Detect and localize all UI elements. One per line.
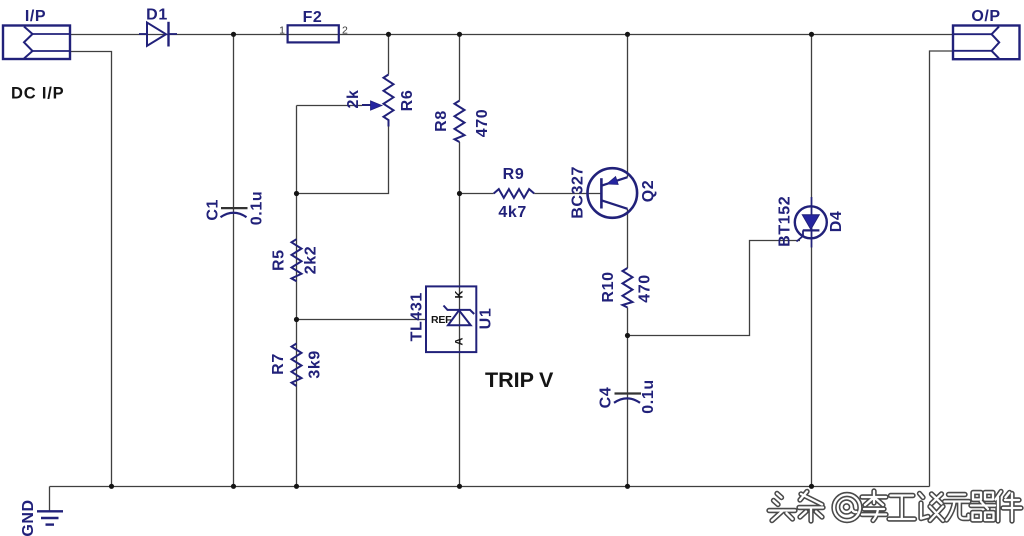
wire bottom rail [50, 486, 930, 488]
wire O/P pin2 down [930, 51, 954, 487]
wire R10 junction to D4 gate [628, 241, 801, 336]
svg-text:0.1u: 0.1u [248, 191, 265, 225]
resistor R7 [292, 344, 302, 387]
Q2 emitter arrow [607, 177, 618, 185]
svg-text:3k9: 3k9 [306, 350, 323, 379]
svg-text:1: 1 [279, 25, 285, 37]
svg-text:Q2: Q2 [640, 180, 657, 203]
svg-text:R9: R9 [503, 166, 525, 183]
shunt regulator U1 TL431 [426, 286, 476, 352]
svg-text:K: K [454, 290, 466, 298]
wire R8 top [459, 35, 461, 101]
wire I/P pin2 to down [70, 52, 112, 487]
svg-text:470: 470 [474, 109, 491, 138]
svg-text:O/P: O/P [971, 8, 1000, 25]
svg-text:TRIPV: TRIPV [485, 368, 554, 392]
svg-text:470: 470 [636, 274, 653, 303]
svg-text:F2: F2 [303, 9, 323, 26]
svg-text:R10: R10 [600, 271, 617, 302]
wire D4 branch vertical [811, 35, 813, 487]
svg-text:0.1u: 0.1u [640, 379, 657, 413]
wire pot bottom [297, 127, 389, 194]
resistor R8 [455, 101, 465, 142]
wire Q2 collector down to R10 [627, 209, 629, 268]
svg-text:D4: D4 [828, 211, 845, 233]
wire Q2 emitter up [627, 35, 629, 178]
svg-text:TL431: TL431 [409, 292, 426, 341]
resistor R5 [292, 239, 302, 281]
wire R8 bottom to TL431 to rail [459, 142, 461, 487]
svg-text:R5: R5 [270, 249, 287, 271]
wire R9 left [460, 193, 494, 195]
pot wiper arrow [371, 101, 383, 110]
connector J2 O/P [953, 26, 1020, 60]
transistor Q2 BC327 [588, 168, 638, 218]
svg-text:I/P: I/P [25, 8, 46, 25]
svg-text:A: A [454, 337, 466, 345]
wire R9 right to Q2 base [534, 193, 601, 195]
svg-text:R7: R7 [270, 353, 287, 375]
wire top rail [70, 34, 953, 36]
ground [37, 511, 63, 524]
thyristor D4 BT152 [811, 197, 813, 248]
wire ground drop [49, 487, 51, 512]
wire pot wiper horizontal [297, 105, 363, 107]
svg-text:DC I/P: DC I/P [11, 85, 64, 103]
svg-text:REF: REF [431, 314, 452, 326]
fuse F2 [288, 25, 339, 42]
diode D1 [139, 22, 177, 47]
D4 triangle [802, 215, 819, 230]
resistor R10 [623, 268, 633, 308]
svg-text:4k7: 4k7 [498, 204, 527, 221]
svg-text:R8: R8 [433, 110, 450, 132]
wire REF horizontal [297, 319, 427, 321]
svg-text:2k: 2k [345, 90, 362, 109]
connector J1 I/P [3, 26, 70, 60]
wire R5 branch vertical [296, 106, 298, 487]
wire R10 bottom to rail [627, 308, 629, 487]
svg-text:GND: GND [20, 499, 37, 536]
capacitor C1 [221, 207, 248, 209]
svg-text:C1: C1 [204, 199, 221, 221]
svg-text:BT152: BT152 [777, 196, 794, 247]
svg-text:C4: C4 [597, 387, 614, 409]
node junction dots [109, 32, 814, 489]
svg-text:2: 2 [342, 25, 348, 37]
svg-text:BC327: BC327 [569, 166, 586, 219]
capacitor C4 [615, 392, 642, 394]
resistor R9 [494, 189, 535, 198]
svg-text:U1: U1 [477, 308, 494, 330]
svg-text:R6: R6 [399, 90, 416, 112]
wire C1 branch [233, 35, 235, 487]
svg-text:D1: D1 [146, 7, 168, 24]
potentiometer R6 [362, 75, 394, 127]
svg-text:2k2: 2k2 [302, 246, 319, 275]
wire pot top [388, 35, 390, 75]
